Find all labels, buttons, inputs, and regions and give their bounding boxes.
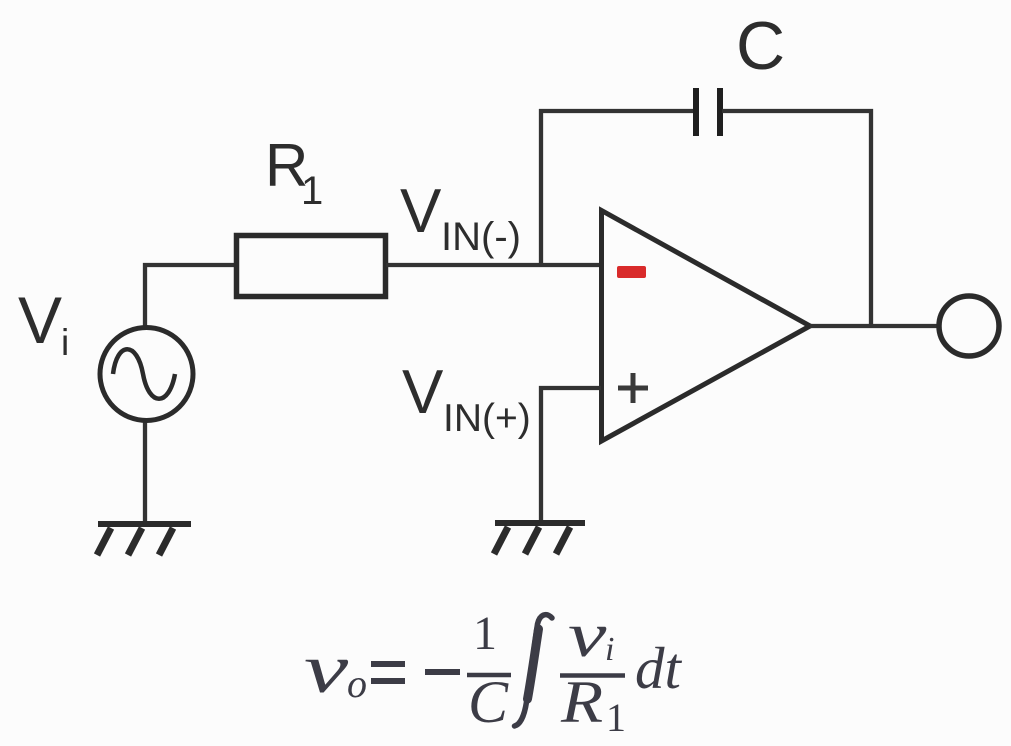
formula minus xyxy=(425,669,460,675)
formula integral xyxy=(515,615,553,726)
op-amp U1 xyxy=(602,211,811,442)
formula v xyxy=(304,629,349,707)
svg-text:V: V xyxy=(402,358,444,427)
wire top left to capacitor xyxy=(539,109,694,113)
wire source top to resistor xyxy=(145,265,236,330)
output terminal xyxy=(939,296,999,356)
svg-text:IN(+): IN(+) xyxy=(443,397,531,440)
svg-text:1: 1 xyxy=(473,607,497,660)
formula equals xyxy=(371,661,405,667)
wire non-inverting input xyxy=(541,388,601,523)
svg-text:1: 1 xyxy=(301,169,323,213)
ground GND1 xyxy=(97,524,191,555)
wire source bottom to ground xyxy=(143,418,147,524)
capacitor C xyxy=(696,88,720,136)
svg-text:o: o xyxy=(347,661,367,706)
op-amp non-inverting marker plus xyxy=(618,373,648,403)
svg-text:v: v xyxy=(304,629,349,707)
resistor R1 xyxy=(237,236,386,297)
svg-text:R: R xyxy=(560,668,603,735)
formula vo = -1/C ∫ vi/R1 dt xyxy=(304,600,683,740)
svg-text:C: C xyxy=(468,669,509,735)
svg-text:dt: dt xyxy=(635,635,683,701)
formula vi over R1 xyxy=(568,600,607,671)
op-amp inverting marker red minus xyxy=(617,266,646,278)
svg-text:C: C xyxy=(736,8,785,84)
svg-text:i: i xyxy=(605,631,614,668)
label R1 xyxy=(265,132,323,213)
label VIN(+) xyxy=(402,358,531,440)
wire capacitor to output node xyxy=(722,111,871,326)
svg-text:V: V xyxy=(18,283,62,357)
svg-text:V: V xyxy=(400,177,442,246)
wire resistor to inverting input xyxy=(386,263,601,267)
ground GND2 xyxy=(494,523,585,554)
node VIN(-) label xyxy=(400,177,521,259)
output wire xyxy=(810,324,939,328)
svg-text:IN(-): IN(-) xyxy=(441,215,521,259)
label Vi xyxy=(18,283,69,363)
svg-text:i: i xyxy=(61,322,69,363)
svg-text:v: v xyxy=(568,600,607,671)
wire feedback left vertical xyxy=(539,109,543,265)
svg-text:1: 1 xyxy=(606,695,626,740)
source V1 sine xyxy=(100,328,193,421)
